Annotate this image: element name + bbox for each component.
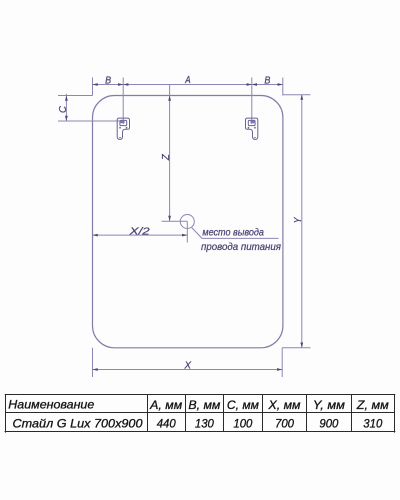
extension line right edge down to X: [281, 348, 283, 377]
svg-text:X: X: [184, 360, 192, 371]
svg-text:700: 700: [275, 418, 295, 430]
arrow Z bottom: [168, 216, 171, 221]
arrow Z top: [168, 96, 171, 101]
extension line right corner vertical: [282, 78, 284, 96]
arrow B left: [93, 83, 98, 86]
dimension line C: [65, 94, 67, 121]
leader wire exit: [192, 228, 279, 239]
arrow C bottom: [65, 116, 68, 121]
dimension line Z: [169, 85, 171, 222]
shelf line at circle: [162, 220, 188, 222]
extension line left corner horizontal: [58, 95, 93, 97]
dimension line X/2: [93, 234, 188, 236]
arrow C top: [65, 96, 68, 101]
arrow A right: [247, 83, 252, 86]
table outer frame: [5, 394, 396, 396]
svg-text:A: A: [184, 75, 190, 86]
svg-text:B: B: [264, 76, 270, 87]
svg-text:130: 130: [195, 418, 215, 430]
svg-text:В, мм: В, мм: [188, 400, 220, 412]
svg-text:B: B: [105, 75, 111, 86]
dimension line Y: [301, 95, 303, 348]
svg-text:X/2: X/2: [128, 226, 150, 237]
vertical line through circle center: [186, 221, 188, 242]
svg-text:С, мм: С, мм: [227, 400, 259, 412]
svg-text:А, мм: А, мм: [149, 400, 182, 412]
table column lines: [147, 394, 149, 432]
mirror outline: [93, 96, 283, 348]
table row divider: [6, 412, 395, 414]
svg-text:Х, мм: Х, мм: [267, 400, 300, 412]
svg-text:Y, мм: Y, мм: [313, 400, 345, 412]
arrow A left: [123, 83, 128, 86]
hook bracket 1: [117, 118, 129, 139]
wire exit circle: [180, 215, 194, 229]
svg-text:310: 310: [363, 418, 383, 430]
svg-text:Наименование: Наименование: [8, 399, 94, 411]
svg-text:Стайл G Lux 700x900: Стайл G Lux 700x900: [13, 419, 144, 431]
arrow X left: [93, 368, 98, 371]
extension line hook1: [122, 78, 124, 125]
extension line hook2: [251, 78, 253, 125]
extension line C bottom: [58, 120, 121, 122]
hook bracket 2: [246, 118, 258, 139]
svg-text:Z, мм: Z, мм: [356, 400, 389, 412]
svg-text:провода питания: провода питания: [201, 242, 282, 253]
svg-text:440: 440: [157, 418, 177, 430]
arrow Y top: [300, 95, 303, 100]
svg-text:место вывода: место вывода: [202, 227, 264, 238]
arrow B right of hook1: [118, 83, 123, 86]
arrow B2 right: [278, 83, 283, 86]
arrow X/2 right: [182, 234, 187, 237]
dimension line X: [93, 369, 283, 371]
arrow X/2 left: [93, 234, 98, 237]
svg-text:C: C: [58, 105, 69, 113]
extension line left corner vertical: [92, 78, 94, 96]
extension line bottom edge to Y: [282, 347, 310, 349]
extension line left edge down to X: [92, 348, 94, 377]
arrow X right: [277, 368, 282, 371]
arrow B2 left: [252, 83, 257, 86]
svg-text:900: 900: [319, 418, 339, 430]
svg-text:100: 100: [233, 418, 253, 430]
dimension line B-A-B: [93, 84, 283, 86]
extension line top edge to Y: [283, 94, 311, 96]
svg-text:Z: Z: [161, 153, 172, 161]
arrow Y bottom: [300, 343, 303, 348]
